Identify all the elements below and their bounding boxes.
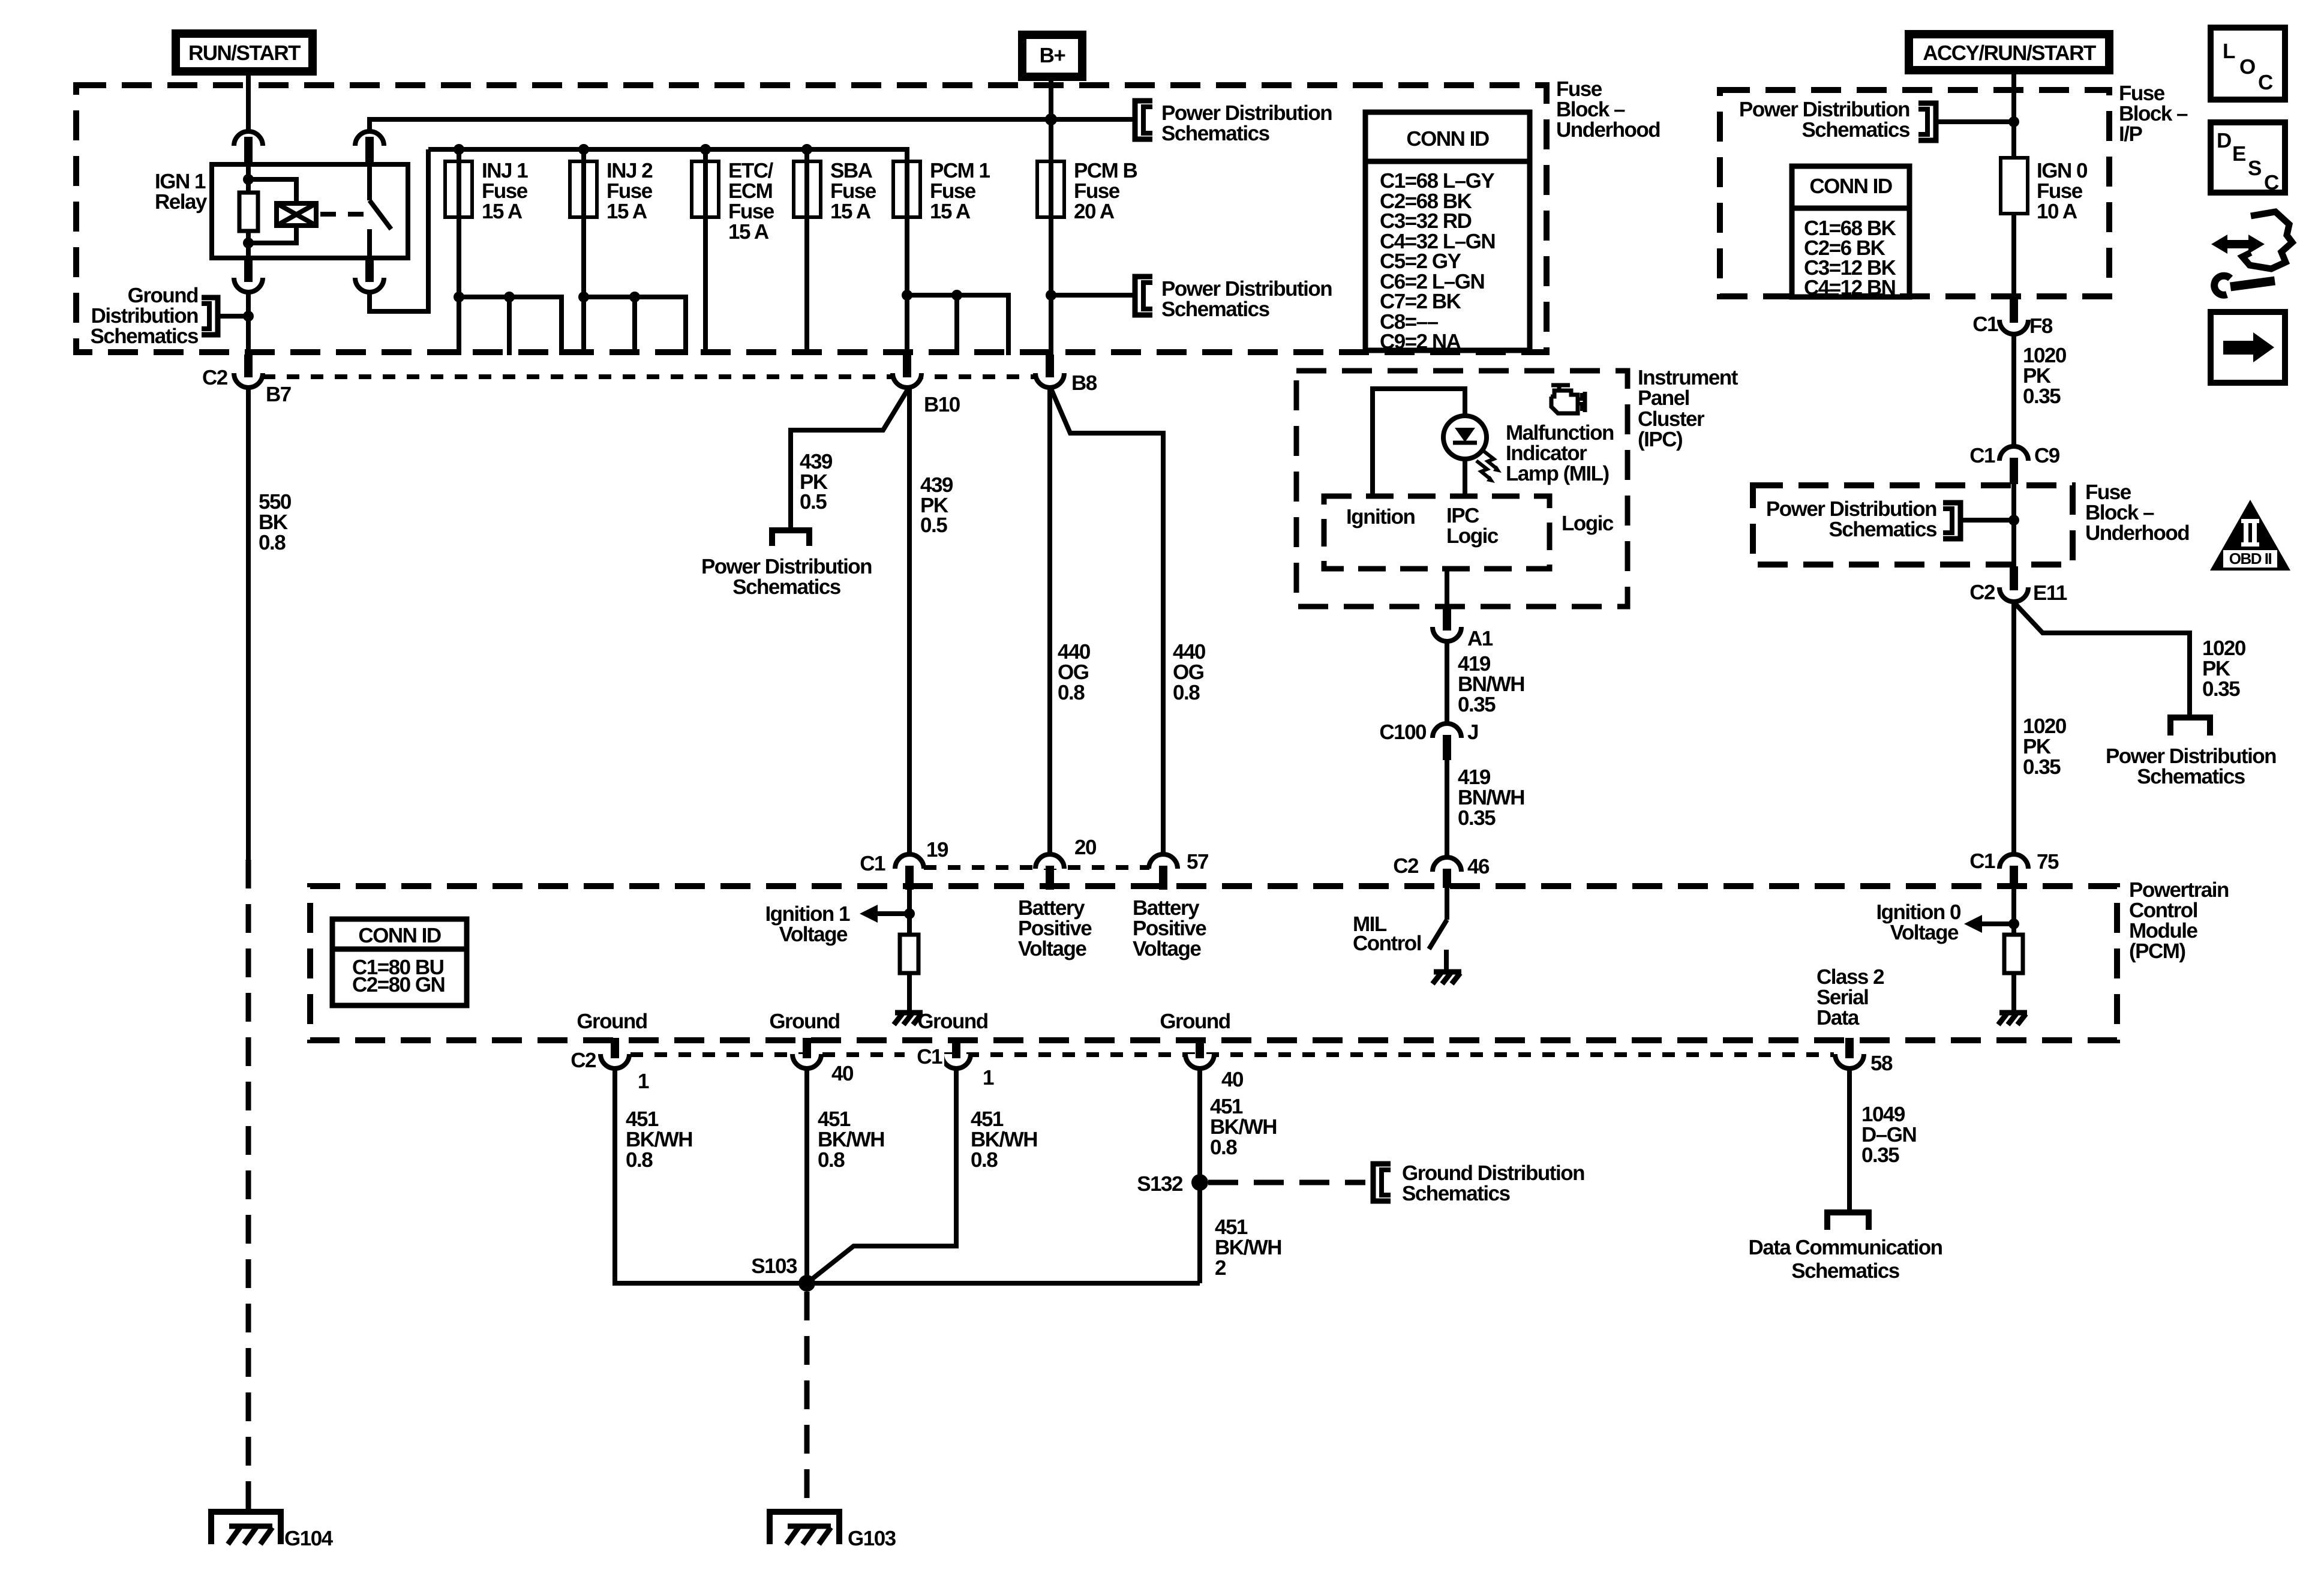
lamp MIL indicator <box>1443 416 1487 459</box>
svg-text:Voltage: Voltage <box>779 923 848 946</box>
svg-text:Schematics: Schematics <box>2137 765 2245 788</box>
connector line fine dotted PCM top <box>924 865 1149 870</box>
icon arrow box <box>2211 312 2285 383</box>
wire fuse feed bus <box>428 149 907 161</box>
ignition 0 voltage node <box>2011 888 2016 935</box>
wire PCMB fuse column <box>1049 119 1053 372</box>
svg-text:E: E <box>2232 142 2245 166</box>
svg-text:Voltage: Voltage <box>1890 921 1959 944</box>
svg-text:20: 20 <box>1074 836 1097 859</box>
svg-text:CONN ID: CONN ID <box>1406 127 1489 151</box>
svg-text:F8: F8 <box>2029 314 2053 338</box>
svg-text:I/P: I/P <box>2119 122 2142 146</box>
svg-text:C1: C1 <box>860 852 885 875</box>
wire IGN0 fuse down <box>2011 214 2016 320</box>
svg-text:0.35: 0.35 <box>2023 385 2061 408</box>
svg-text:0.8: 0.8 <box>626 1148 653 1172</box>
svg-text:S132: S132 <box>1137 1172 1183 1196</box>
connector line fine dotted row1 <box>263 374 1037 379</box>
svg-text:ACCY/RUN/START: ACCY/RUN/START <box>1923 41 2096 65</box>
svg-text:C1: C1 <box>917 1045 942 1068</box>
connector C1 1 <box>942 1054 971 1068</box>
fuse PCM1 <box>893 161 920 217</box>
wire F8 to C9 <box>2011 334 2016 448</box>
relay solenoid branch <box>248 179 296 203</box>
svg-text:0.35: 0.35 <box>2023 755 2061 779</box>
connector 58 <box>1835 1054 1864 1068</box>
connector B8 <box>1035 373 1064 388</box>
svg-text:15 A: 15 A <box>830 200 871 223</box>
wire B8 main drop 440 OG <box>1047 387 1052 854</box>
svg-text:B+: B+ <box>1040 44 1066 67</box>
connector 40 a <box>792 1054 821 1068</box>
fuse PCMB <box>1037 161 1064 217</box>
connector C2 B7 <box>234 373 263 388</box>
node S103 <box>798 1275 815 1292</box>
svg-text:G103: G103 <box>848 1527 896 1550</box>
svg-text:58: 58 <box>1870 1052 1893 1075</box>
svg-text:Control: Control <box>1353 932 1421 955</box>
IPC box <box>1296 371 1628 607</box>
resistor ignition 0 <box>2004 935 2023 973</box>
bracket power distribution schematics underhood2 <box>1943 503 1960 539</box>
wire through box <box>2011 483 2016 566</box>
wire relay87 to fuse bus riser <box>370 149 428 311</box>
svg-text:0.8: 0.8 <box>971 1148 998 1172</box>
svg-text:0.8: 0.8 <box>259 531 286 554</box>
svg-text:B7: B7 <box>266 383 291 406</box>
fuse block underhood box <box>76 85 1547 352</box>
wire PCM1 output tie <box>907 295 1008 355</box>
svg-text:C: C <box>2264 171 2279 194</box>
svg-text:C2: C2 <box>202 366 228 389</box>
connector C1 19 <box>895 854 924 869</box>
wire S103 dashed to G103 <box>804 1292 810 1512</box>
svg-text:CONN ID: CONN ID <box>358 924 441 947</box>
svg-text:Schematics: Schematics <box>1161 122 1270 145</box>
chassis ground ignition 1 <box>894 1013 923 1025</box>
svg-text:Lamp (MIL): Lamp (MIL) <box>1506 462 1609 485</box>
bracket ground distribution schematics <box>202 298 218 335</box>
svg-text:57: 57 <box>1187 850 1208 873</box>
wire B+ down <box>1049 81 1053 161</box>
svg-text:0.35: 0.35 <box>1458 806 1496 830</box>
svg-text:0.35: 0.35 <box>2202 677 2240 701</box>
icon DESC box <box>2211 122 2285 194</box>
svg-text:Data: Data <box>1816 1006 1860 1029</box>
svg-text:0.8: 0.8 <box>1173 681 1200 704</box>
connector line fine dotted PCM bottom <box>630 1052 1834 1057</box>
fuse INJ1 <box>445 161 472 217</box>
connector arc relay pin30 out <box>234 278 263 292</box>
svg-text:Relay: Relay <box>155 190 208 214</box>
svg-text:15 A: 15 A <box>930 200 971 223</box>
relay coil resistor <box>239 193 258 231</box>
svg-text:0.5: 0.5 <box>920 514 947 537</box>
wire SBA fuse column <box>804 149 809 355</box>
svg-text:0.35: 0.35 <box>1861 1143 1899 1167</box>
wire RUN/START down <box>246 76 251 360</box>
relay actuation dashes <box>320 212 364 217</box>
fuse block underhood box 2 <box>1753 485 2073 565</box>
svg-text:Voltage: Voltage <box>1018 937 1086 960</box>
svg-text:Schematics: Schematics <box>1161 298 1270 321</box>
connector arc relay pin87 out <box>355 278 384 292</box>
svg-text:C1: C1 <box>1969 849 1995 873</box>
svg-text:RUN/START: RUN/START <box>188 41 301 65</box>
svg-text:46: 46 <box>1467 855 1490 878</box>
bracket power distribution schematics top <box>1135 101 1152 139</box>
svg-text:19: 19 <box>926 838 948 861</box>
fuse block IP box <box>1720 90 2109 296</box>
icon service wrench <box>2211 212 2292 295</box>
node S132 <box>1191 1174 1208 1191</box>
wire B10 left branch <box>791 389 908 528</box>
connector arc relay pin85 <box>355 131 384 146</box>
wire INJ1 fuse column <box>457 149 461 355</box>
svg-text:Schematics: Schematics <box>90 325 199 348</box>
svg-text:L: L <box>2223 40 2235 63</box>
connector C2 46 <box>1433 857 1461 872</box>
wire S132 dashed to bracket <box>1208 1180 1365 1185</box>
svg-text:Schematics: Schematics <box>1402 1182 1511 1205</box>
icon LOC box <box>2211 28 2285 100</box>
MIL control switch <box>1445 888 1449 920</box>
svg-text:Ground: Ground <box>917 1010 987 1033</box>
svg-text:Logic: Logic <box>1562 512 1614 535</box>
connector B10 <box>893 373 921 388</box>
wire E11 right branch <box>2014 603 2190 715</box>
connector C100 J <box>1433 724 1461 738</box>
wire A1 to C100 <box>1445 641 1449 725</box>
ground G103 <box>770 1512 896 1550</box>
wire bracket to ACCY wire <box>1936 119 2014 124</box>
connector 40 b <box>1185 1054 1214 1068</box>
wire IPC logic to A1 <box>1445 569 1449 608</box>
svg-text:20 A: 20 A <box>1074 200 1115 223</box>
svg-text:15 A: 15 A <box>606 200 647 223</box>
wire 550 BK dashed part to G104 <box>246 860 251 1512</box>
wire C100 to C2 46 <box>1445 760 1449 858</box>
bracket down power distribution schematics right <box>2170 718 2210 736</box>
fuse INJ2 <box>570 161 597 217</box>
svg-text:C2: C2 <box>1393 854 1419 878</box>
svg-text:0.8: 0.8 <box>1210 1136 1237 1159</box>
svg-text:Panel: Panel <box>1638 386 1689 410</box>
wire INJ2 fuse column <box>581 149 586 355</box>
wire C2-1 drop <box>615 1068 804 1283</box>
wire PCMB junction to bracket <box>1051 293 1133 298</box>
svg-text:15 A: 15 A <box>482 200 523 223</box>
svg-text:Ground: Ground <box>1160 1010 1230 1033</box>
svg-text:C1: C1 <box>1969 444 1995 467</box>
connector C2 E11 <box>1999 587 2028 602</box>
wire B8 right branch 440 OG <box>1051 389 1163 854</box>
svg-text:C9=2 NA: C9=2 NA <box>1380 330 1461 353</box>
svg-text:S: S <box>2248 157 2261 180</box>
svg-text:1: 1 <box>983 1066 994 1089</box>
icon OBD II triangle <box>2210 500 2290 571</box>
svg-text:B8: B8 <box>1071 371 1097 395</box>
svg-text:75: 75 <box>2037 850 2059 873</box>
connector C1 75 <box>1999 854 2028 869</box>
svg-text:Data Communication: Data Communication <box>1748 1236 1942 1259</box>
CONN ID table IP <box>1792 166 1909 299</box>
wire INJ2 output tie <box>584 297 686 355</box>
lamp rays <box>1483 451 1497 469</box>
wire ETC/ECM fuse column <box>703 149 708 355</box>
svg-text:0.5: 0.5 <box>800 490 827 514</box>
fuse SBA <box>794 161 821 217</box>
connector C2 1 <box>600 1054 629 1068</box>
svg-text:2: 2 <box>1215 1256 1226 1280</box>
svg-text:C4=12 BN: C4=12 BN <box>1804 276 1895 299</box>
connector C1 F8 <box>1999 320 2028 334</box>
svg-text:Ground: Ground <box>577 1010 647 1033</box>
svg-text:1: 1 <box>638 1070 649 1093</box>
fuse IGN0 <box>2001 158 2028 214</box>
svg-text:(PCM): (PCM) <box>2129 939 2185 963</box>
svg-text:Schematics: Schematics <box>1828 518 1937 541</box>
svg-text:E11: E11 <box>2033 581 2067 605</box>
svg-text:Ignition: Ignition <box>1346 505 1415 529</box>
wire 550 BK solid part <box>246 388 251 860</box>
connector C1 C9 <box>1999 446 2028 461</box>
wire E11 to C1 75 <box>2011 602 2016 855</box>
svg-text:0.8: 0.8 <box>1058 681 1085 704</box>
svg-text:B10: B10 <box>924 393 960 416</box>
svg-text:Underhood: Underhood <box>2085 521 2189 545</box>
svg-text:15 A: 15 A <box>728 220 769 244</box>
connector 20 <box>1035 854 1064 869</box>
wire bracket to relay30 wire <box>218 314 248 319</box>
CONN ID table fuse block underhood <box>1365 112 1530 353</box>
svg-text:40: 40 <box>831 1062 854 1085</box>
svg-text:C1: C1 <box>1972 313 1998 336</box>
ground G104 <box>211 1512 334 1550</box>
wire PCM1 fuse column <box>905 149 909 372</box>
svg-text:Ground: Ground <box>769 1010 839 1033</box>
wire lamp loop <box>1373 389 1465 496</box>
svg-text:C2: C2 <box>1969 581 1995 604</box>
wire S132 to S103 <box>809 1281 1200 1286</box>
node dots on feed bus <box>454 144 464 155</box>
svg-text:Schematics: Schematics <box>1791 1259 1900 1283</box>
svg-text:10 A: 10 A <box>2037 200 2077 223</box>
wire 40a drop <box>804 1068 809 1283</box>
svg-text:G104: G104 <box>284 1527 334 1550</box>
power label ACCY/RUN/START <box>1909 34 2109 70</box>
battery positive voltage labels <box>1047 886 1052 888</box>
fuse ETC/ECM <box>692 161 719 217</box>
wire C1-1 drop <box>810 1068 956 1280</box>
svg-text:OBD II: OBD II <box>2229 550 2272 568</box>
svg-text:C2=80 GN: C2=80 GN <box>352 973 445 996</box>
svg-text:C2: C2 <box>571 1049 596 1072</box>
chassis ground ignition 0 <box>1998 1013 2027 1025</box>
wire bus y199 relay to bracket <box>370 119 1133 133</box>
node junction B+ bus <box>1045 113 1057 125</box>
wire B10 main drop 439 PK <box>907 387 912 854</box>
bracket down data communication <box>1827 1212 1869 1230</box>
svg-text:C: C <box>2258 71 2273 94</box>
CONN ID table PCM <box>332 919 467 1005</box>
wire 40b drop to S132 <box>1197 1068 1202 1283</box>
svg-text:(IPC): (IPC) <box>1638 428 1682 451</box>
relay coil wire <box>246 164 251 193</box>
svg-text:Schematics: Schematics <box>1801 118 1910 142</box>
PCM box <box>310 886 2117 1040</box>
svg-text:CONN ID: CONN ID <box>1809 175 1892 198</box>
svg-text:O: O <box>2239 55 2255 79</box>
svg-text:C9: C9 <box>2034 444 2060 467</box>
wire 58 drop <box>1847 1068 1852 1212</box>
svg-text:Underhood: Underhood <box>1556 118 1660 142</box>
connector arc relay pin86 <box>234 131 263 146</box>
power label RUN/START <box>176 34 313 71</box>
svg-text:S103: S103 <box>751 1254 797 1278</box>
bracket down power distribution schematics <box>772 530 809 546</box>
connector 57 <box>1149 854 1178 869</box>
svg-text:0.35: 0.35 <box>1458 693 1496 716</box>
power label B+ <box>1022 35 1082 77</box>
wire ACCY down <box>2011 74 2016 158</box>
bracket ground distribution schematics S132 <box>1373 1164 1391 1201</box>
svg-text:A1: A1 <box>1467 627 1493 650</box>
bracket power distribution schematics IP <box>1918 103 1936 140</box>
bracket power distribution schematics 2 <box>1135 277 1152 315</box>
node PCMB output junction <box>1046 290 1056 301</box>
svg-text:Voltage: Voltage <box>1133 937 1201 960</box>
wire relay30 down <box>246 292 251 360</box>
connector A1 <box>1433 627 1461 641</box>
svg-text:Schematics: Schematics <box>732 575 841 599</box>
relay switch <box>367 164 372 200</box>
ignition 1 voltage node <box>907 888 912 935</box>
IPC logic inner box <box>1324 496 1550 569</box>
relay IGN1 box <box>212 164 408 258</box>
svg-text:J: J <box>1467 721 1478 744</box>
svg-text:C100: C100 <box>1379 721 1427 744</box>
svg-text:Logic: Logic <box>1446 524 1499 548</box>
svg-text:D: D <box>2217 129 2231 152</box>
svg-text:40: 40 <box>1221 1068 1244 1091</box>
resistor ignition 1 <box>900 935 918 973</box>
engine icon <box>1551 385 1585 413</box>
svg-text:0.8: 0.8 <box>818 1148 845 1172</box>
wire INJ1 output tie <box>459 297 562 355</box>
relay solenoid X box <box>277 203 316 226</box>
